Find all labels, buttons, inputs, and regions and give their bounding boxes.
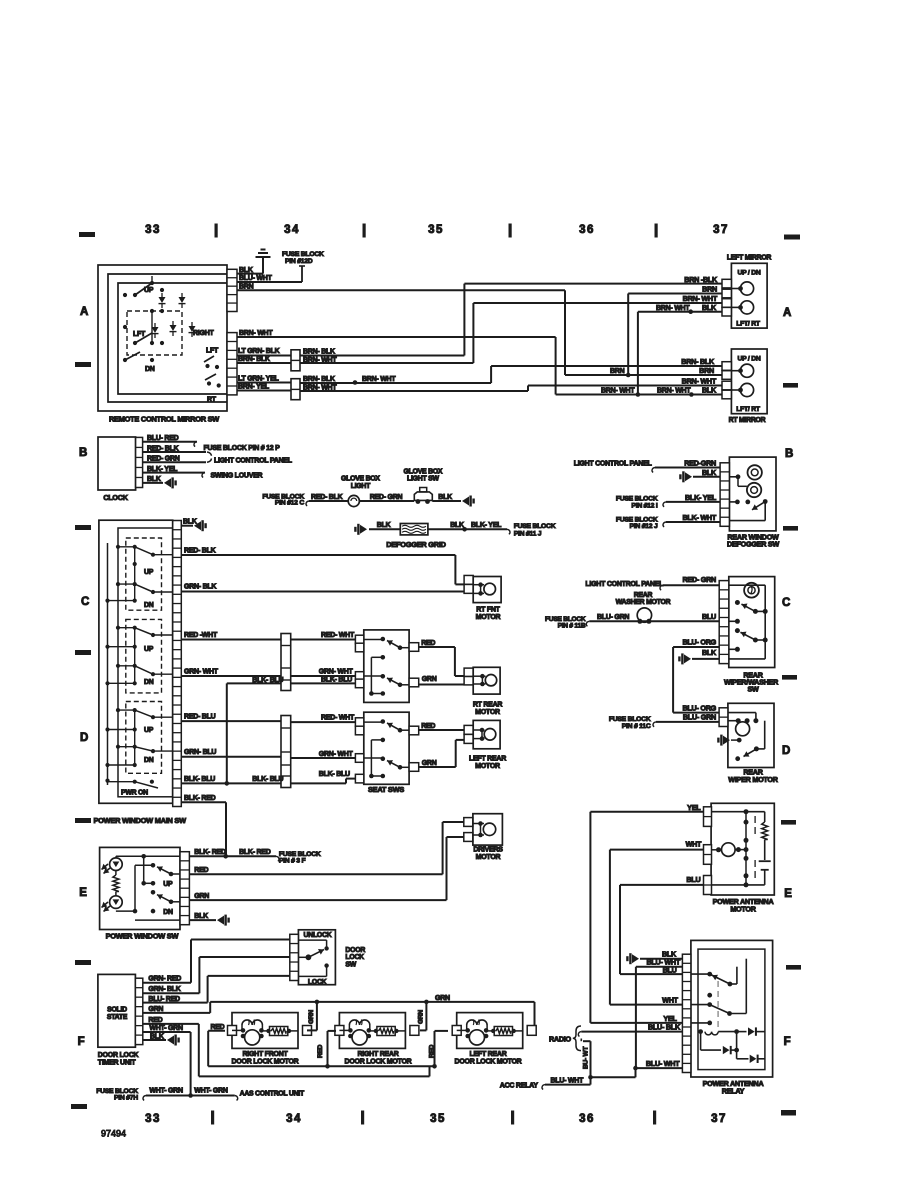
svg-text:DEFOGGER GRID: DEFOGGER GRID xyxy=(386,540,446,549)
svg-text:A: A xyxy=(783,307,791,319)
svg-text:DRIVERS: DRIVERS xyxy=(473,847,503,854)
svg-text:GRN- WHT: GRN- WHT xyxy=(319,668,354,675)
svg-text:UP: UP xyxy=(144,727,154,734)
svg-text:FUSE BLOCK: FUSE BLOCK xyxy=(282,251,324,258)
svg-text:RED -WHT: RED -WHT xyxy=(184,632,218,639)
svg-text:GRN: GRN xyxy=(194,893,209,900)
svg-text:BLU- ORG: BLU- ORG xyxy=(682,638,716,647)
svg-text:LEFT MIRROR: LEFT MIRROR xyxy=(727,255,772,262)
svg-text:BLK: BLK xyxy=(702,648,717,657)
svg-text:E: E xyxy=(784,888,792,900)
svg-text:GRN: GRN xyxy=(422,676,437,683)
svg-text:GRN: GRN xyxy=(435,995,450,1002)
svg-text:F: F xyxy=(78,1036,85,1048)
svg-text:GLOVE BOX: GLOVE BOX xyxy=(404,468,443,475)
svg-text:PIN # 11C: PIN # 11C xyxy=(622,723,651,730)
svg-text:RED- GRN: RED- GRN xyxy=(147,456,180,463)
svg-text:RED-GRN: RED-GRN xyxy=(684,459,716,468)
svg-text:BLK- RED: BLK- RED xyxy=(184,795,216,802)
svg-text:RED: RED xyxy=(211,1024,225,1031)
svg-text:RIGHT: RIGHT xyxy=(193,330,215,337)
svg-text:BLK- BLU: BLK- BLU xyxy=(319,771,350,778)
svg-text:WHT: WHT xyxy=(686,840,702,849)
svg-text:BRN- BLK: BRN- BLK xyxy=(303,376,335,383)
svg-text:UNLOCK: UNLOCK xyxy=(304,932,332,939)
svg-text:36: 36 xyxy=(579,1113,595,1125)
svg-text:RED- GRN: RED- GRN xyxy=(370,494,403,501)
svg-text:POWER WINDOW SW: POWER WINDOW SW xyxy=(106,932,179,941)
svg-text:PIN #12 C: PIN #12 C xyxy=(275,500,304,507)
svg-text:CLOCK: CLOCK xyxy=(103,493,128,502)
svg-text:BRN- WHT: BRN- WHT xyxy=(683,294,718,303)
svg-text:LIGHT: LIGHT xyxy=(351,483,371,490)
svg-text:LOCK: LOCK xyxy=(345,954,364,961)
svg-text:BRN -BLK: BRN -BLK xyxy=(684,275,718,284)
svg-text:UP / DN: UP / DN xyxy=(737,355,760,362)
svg-text:BLK: BLK xyxy=(702,468,717,477)
svg-text:RED- BLK: RED- BLK xyxy=(184,547,216,554)
svg-text:DN: DN xyxy=(144,602,154,609)
svg-text:POWER WINDOW MAIN SW: POWER WINDOW MAIN SW xyxy=(94,816,187,825)
svg-text:MOTOR: MOTOR xyxy=(730,905,756,914)
svg-text:BLK- BLU: BLK- BLU xyxy=(252,776,283,783)
svg-text:WASHER MOTOR: WASHER MOTOR xyxy=(616,599,671,606)
svg-text:PIN #11 J: PIN #11 J xyxy=(514,530,542,537)
svg-text:WIPER MOTOR: WIPER MOTOR xyxy=(728,775,778,784)
svg-text:BLU: BLU xyxy=(686,875,700,884)
svg-text:RED- WHT: RED- WHT xyxy=(321,632,355,639)
svg-text:BLK- BLU: BLK- BLU xyxy=(252,677,283,684)
svg-text:RIGHT REAR: RIGHT REAR xyxy=(357,1051,398,1058)
svg-text:BRN: BRN xyxy=(702,285,717,294)
svg-text:PIN #7H: PIN #7H xyxy=(114,1095,138,1102)
svg-text:BLK: BLK xyxy=(702,386,717,395)
svg-text:LIGHT CONTROL PANEL: LIGHT CONTROL PANEL xyxy=(574,460,653,467)
svg-text:UP: UP xyxy=(163,881,173,888)
svg-text:RED: RED xyxy=(317,1044,324,1058)
svg-text:BLU- WHT: BLU- WHT xyxy=(551,1078,585,1085)
svg-text:BLK: BLK xyxy=(450,522,464,529)
svg-text:STATE: STATE xyxy=(107,1014,128,1021)
svg-text:RIGHT FRONT: RIGHT FRONT xyxy=(242,1051,288,1058)
svg-text:LFT: LFT xyxy=(206,348,219,355)
svg-text:LFT/ RT: LFT/ RT xyxy=(736,406,761,413)
svg-text:BRN: BRN xyxy=(610,368,625,375)
svg-text:RELAY: RELAY xyxy=(722,1087,745,1096)
svg-text:RED: RED xyxy=(421,723,435,730)
svg-text:BLU- WHT: BLU- WHT xyxy=(646,1059,680,1068)
svg-text:WHT- GRN: WHT- GRN xyxy=(194,1088,228,1095)
svg-text:FUSE BLOCK PIN # 12 P: FUSE BLOCK PIN # 12 P xyxy=(204,445,281,452)
svg-text:BLK: BLK xyxy=(194,913,208,920)
svg-text:BLK: BLK xyxy=(702,303,717,312)
svg-text:REAR: REAR xyxy=(634,592,653,599)
svg-text:BLU: BLU xyxy=(663,965,677,974)
svg-text:BLK- BLU: BLK- BLU xyxy=(184,776,215,783)
svg-text:BRN- BLK: BRN- BLK xyxy=(681,357,715,366)
svg-text:DOOR: DOOR xyxy=(345,947,365,954)
svg-text:PIN # 11B: PIN # 11B xyxy=(558,623,586,630)
svg-text:BLU- RED: BLU- RED xyxy=(147,435,179,442)
svg-text:BLU- WHT: BLU- WHT xyxy=(239,275,273,282)
svg-text:BLU- BLK: BLU- BLK xyxy=(648,1023,681,1032)
svg-text:DOOR LOCK MOTOR: DOOR LOCK MOTOR xyxy=(455,1059,522,1066)
svg-text:RED: RED xyxy=(194,867,208,874)
svg-text:BLU- ORG: BLU- ORG xyxy=(682,703,716,712)
svg-text:GRN- WHT: GRN- WHT xyxy=(319,751,354,758)
svg-text:LIGHT CONTROL PANEL: LIGHT CONTROL PANEL xyxy=(585,581,664,588)
svg-text:35: 35 xyxy=(428,224,444,236)
svg-text:BRN- WHT: BRN- WHT xyxy=(362,376,396,383)
svg-text:34: 34 xyxy=(284,224,300,236)
svg-text:BLU: BLU xyxy=(702,612,716,621)
svg-text:MOTOR: MOTOR xyxy=(476,614,501,621)
svg-text:C: C xyxy=(782,597,790,609)
svg-text:WHT: WHT xyxy=(662,995,678,1004)
svg-text:RED: RED xyxy=(421,640,435,647)
svg-text:PIN #12 J: PIN #12 J xyxy=(630,523,658,530)
svg-text:SW: SW xyxy=(747,685,759,694)
svg-text:YEL: YEL xyxy=(687,803,701,812)
svg-text:GRN: GRN xyxy=(308,1010,315,1024)
svg-text:BLK: BLK xyxy=(147,476,161,483)
svg-text:MOTOR: MOTOR xyxy=(476,854,501,861)
svg-text:LEFT REAR: LEFT REAR xyxy=(469,755,506,762)
svg-text:WHT- GRN: WHT- GRN xyxy=(149,1088,183,1095)
svg-text:RT: RT xyxy=(207,397,217,404)
svg-text:PIN # 3 F: PIN # 3 F xyxy=(279,858,306,865)
svg-text:E: E xyxy=(79,887,87,899)
svg-text:WHT- GRN: WHT- GRN xyxy=(149,1025,183,1032)
svg-text:GRN: GRN xyxy=(422,760,437,767)
svg-text:BRN- BLK: BRN- BLK xyxy=(303,348,335,355)
svg-text:DOOR LOCK MOTOR: DOOR LOCK MOTOR xyxy=(345,1059,412,1066)
svg-text:RT REAR: RT REAR xyxy=(473,702,503,709)
svg-text:RED: RED xyxy=(429,1044,436,1058)
svg-text:GRN- BLK: GRN- BLK xyxy=(184,584,216,591)
svg-text:RT FNT: RT FNT xyxy=(476,607,500,614)
svg-text:33: 33 xyxy=(145,1113,161,1125)
svg-text:TIMER UNIT: TIMER UNIT xyxy=(98,1060,137,1067)
svg-text:D: D xyxy=(80,732,88,744)
svg-text:UP: UP xyxy=(144,569,154,576)
svg-text:BLU- GRN: BLU- GRN xyxy=(597,614,629,621)
svg-text:LOCK: LOCK xyxy=(308,979,327,986)
svg-text:DN: DN xyxy=(163,909,173,916)
svg-text:MOTOR: MOTOR xyxy=(475,763,500,770)
svg-text:SOLID: SOLID xyxy=(107,1006,127,1013)
svg-text:UP / DN: UP / DN xyxy=(737,270,760,277)
svg-text:BLK: BLK xyxy=(438,494,452,501)
svg-text:REMOTE CONTROL MIRROR SW: REMOTE CONTROL MIRROR SW xyxy=(109,415,219,424)
svg-text:RED- WHT: RED- WHT xyxy=(321,714,355,721)
svg-text:UP: UP xyxy=(144,646,154,653)
svg-text:BLK- BLU: BLK- BLU xyxy=(321,676,352,683)
svg-text:35: 35 xyxy=(430,1113,446,1125)
svg-text:BLK: BLK xyxy=(377,522,391,529)
svg-text:GRN: GRN xyxy=(418,1010,425,1024)
svg-text:LFT/ RT: LFT/ RT xyxy=(736,321,761,328)
svg-text:ACC RELAY: ACC RELAY xyxy=(500,1083,539,1090)
svg-text:97494: 97494 xyxy=(101,1129,126,1139)
svg-text:34: 34 xyxy=(286,1113,302,1125)
svg-text:BLK- WHT: BLK- WHT xyxy=(682,513,716,522)
svg-text:37: 37 xyxy=(711,1113,727,1125)
svg-text:B: B xyxy=(79,447,87,459)
svg-text:A: A xyxy=(80,306,88,318)
svg-text:RED- BLK: RED- BLK xyxy=(311,494,343,501)
svg-text:BLK- RED: BLK- RED xyxy=(194,849,226,856)
svg-text:LIGHT CONTROL PANEL: LIGHT CONTROL PANEL xyxy=(214,458,293,465)
svg-text:LT GRN- BLK: LT GRN- BLK xyxy=(238,348,280,355)
svg-text:PWR ON: PWR ON xyxy=(121,790,148,797)
svg-text:FUSE BLOCK: FUSE BLOCK xyxy=(514,523,556,530)
svg-text:DEFOGGER SW: DEFOGGER SW xyxy=(727,539,779,548)
svg-text:GRN- BLK: GRN- BLK xyxy=(148,986,180,993)
svg-text:BLK- YEL: BLK- YEL xyxy=(685,493,717,502)
svg-text:LIGHT SW: LIGHT SW xyxy=(407,476,439,483)
svg-text:37: 37 xyxy=(713,224,729,236)
svg-text:DN: DN xyxy=(144,679,154,686)
svg-text:SWING LOUVER: SWING LOUVER xyxy=(211,473,263,480)
svg-text:GRN- WHT: GRN- WHT xyxy=(184,668,219,675)
svg-text:BRN- WHT: BRN- WHT xyxy=(601,388,635,395)
svg-text:36: 36 xyxy=(579,224,595,236)
svg-text:BRN: BRN xyxy=(699,366,714,375)
svg-text:LEFT REAR: LEFT REAR xyxy=(469,1051,506,1058)
svg-text:BLK- RED: BLK- RED xyxy=(239,849,271,856)
svg-text:BLK- YEL: BLK- YEL xyxy=(147,466,178,473)
svg-text:BLK: BLK xyxy=(239,267,253,274)
svg-text:DN: DN xyxy=(144,757,154,764)
svg-text:PIN #12D: PIN #12D xyxy=(285,258,313,265)
svg-text:BRN- WHT: BRN- WHT xyxy=(656,305,690,312)
svg-text:AAS CONTROL UNIT: AAS CONTROL UNIT xyxy=(240,1090,305,1097)
svg-text:RED- BLK: RED- BLK xyxy=(147,445,179,452)
svg-text:GRN- BLU: GRN- BLU xyxy=(184,749,216,756)
svg-text:C: C xyxy=(81,596,89,608)
svg-text:RED- GRN: RED- GRN xyxy=(682,575,716,584)
svg-text:BRN- WHT: BRN- WHT xyxy=(682,377,717,386)
svg-text:DN: DN xyxy=(145,366,155,373)
svg-text:BLK: BLK xyxy=(183,519,197,526)
svg-text:RED- BLU: RED- BLU xyxy=(184,713,216,720)
svg-text:BLU- GRN: BLU- GRN xyxy=(683,713,716,722)
svg-text:RADIO: RADIO xyxy=(549,1035,572,1044)
svg-text:GLOVE BOX: GLOVE BOX xyxy=(341,476,380,483)
svg-text:DOOR LOCK: DOOR LOCK xyxy=(98,1052,139,1059)
svg-text:MOTOR: MOTOR xyxy=(475,709,500,716)
svg-text:SW: SW xyxy=(345,961,356,968)
svg-text:33: 33 xyxy=(145,224,161,236)
svg-text:B: B xyxy=(785,448,793,460)
svg-text:F: F xyxy=(784,1036,791,1048)
svg-text:BRN- WHT: BRN- WHT xyxy=(239,330,273,337)
svg-text:BRN- WHT: BRN- WHT xyxy=(657,388,691,395)
svg-text:RT MIRROR: RT MIRROR xyxy=(729,417,766,424)
svg-text:SEAT SWS: SEAT SWS xyxy=(368,785,404,794)
svg-text:BU- WT: BU- WT xyxy=(583,1046,590,1069)
svg-text:GRN- RED: GRN- RED xyxy=(148,976,181,983)
svg-text:BLK- YEL: BLK- YEL xyxy=(471,522,502,529)
svg-text:D: D xyxy=(782,745,790,757)
svg-text:DOOR LOCK MOTOR: DOOR LOCK MOTOR xyxy=(232,1059,299,1066)
svg-text:PIN #12 I: PIN #12 I xyxy=(631,502,657,509)
